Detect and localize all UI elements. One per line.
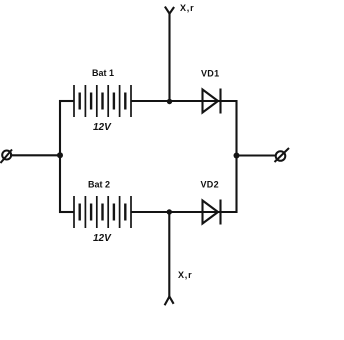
wire mid-left segment: [10, 154, 60, 156]
arrow terminal bottom: [165, 297, 174, 306]
svg-text:Bat 1: Bat 1: [92, 68, 114, 78]
wire bottom stub: [168, 212, 170, 297]
wire bottom-mid segment: [131, 211, 237, 213]
wire left rail: [59, 100, 61, 213]
junction node right: [234, 153, 240, 159]
wire top-mid segment: [131, 100, 237, 102]
svg-text:VD1: VD1: [201, 69, 219, 79]
junction node left: [57, 152, 63, 158]
battery Bat1: [74, 85, 131, 117]
svg-text:X,r: X,r: [180, 3, 194, 13]
arrow terminal top: [165, 7, 174, 14]
svg-text:Bat 2: Bat 2: [88, 180, 110, 190]
battery Bat2: [74, 196, 131, 228]
diode VD2: [203, 200, 221, 225]
svg-text:12V: 12V: [93, 122, 112, 133]
svg-text:12V: 12V: [93, 233, 112, 244]
svg-text:X,r: X,r: [178, 270, 192, 280]
terminal X left: [1, 150, 13, 164]
svg-text:VD2: VD2: [201, 180, 219, 190]
wire top stub: [168, 13, 170, 101]
wire mid-right segment: [237, 154, 276, 156]
wire right rail: [235, 100, 237, 213]
junction node top: [167, 99, 172, 104]
junction node bottom: [167, 209, 172, 214]
wire bottom-left segment: [59, 211, 74, 213]
wire top-left segment: [59, 100, 74, 102]
terminal X right: [275, 148, 290, 162]
diode VD1: [203, 89, 221, 114]
